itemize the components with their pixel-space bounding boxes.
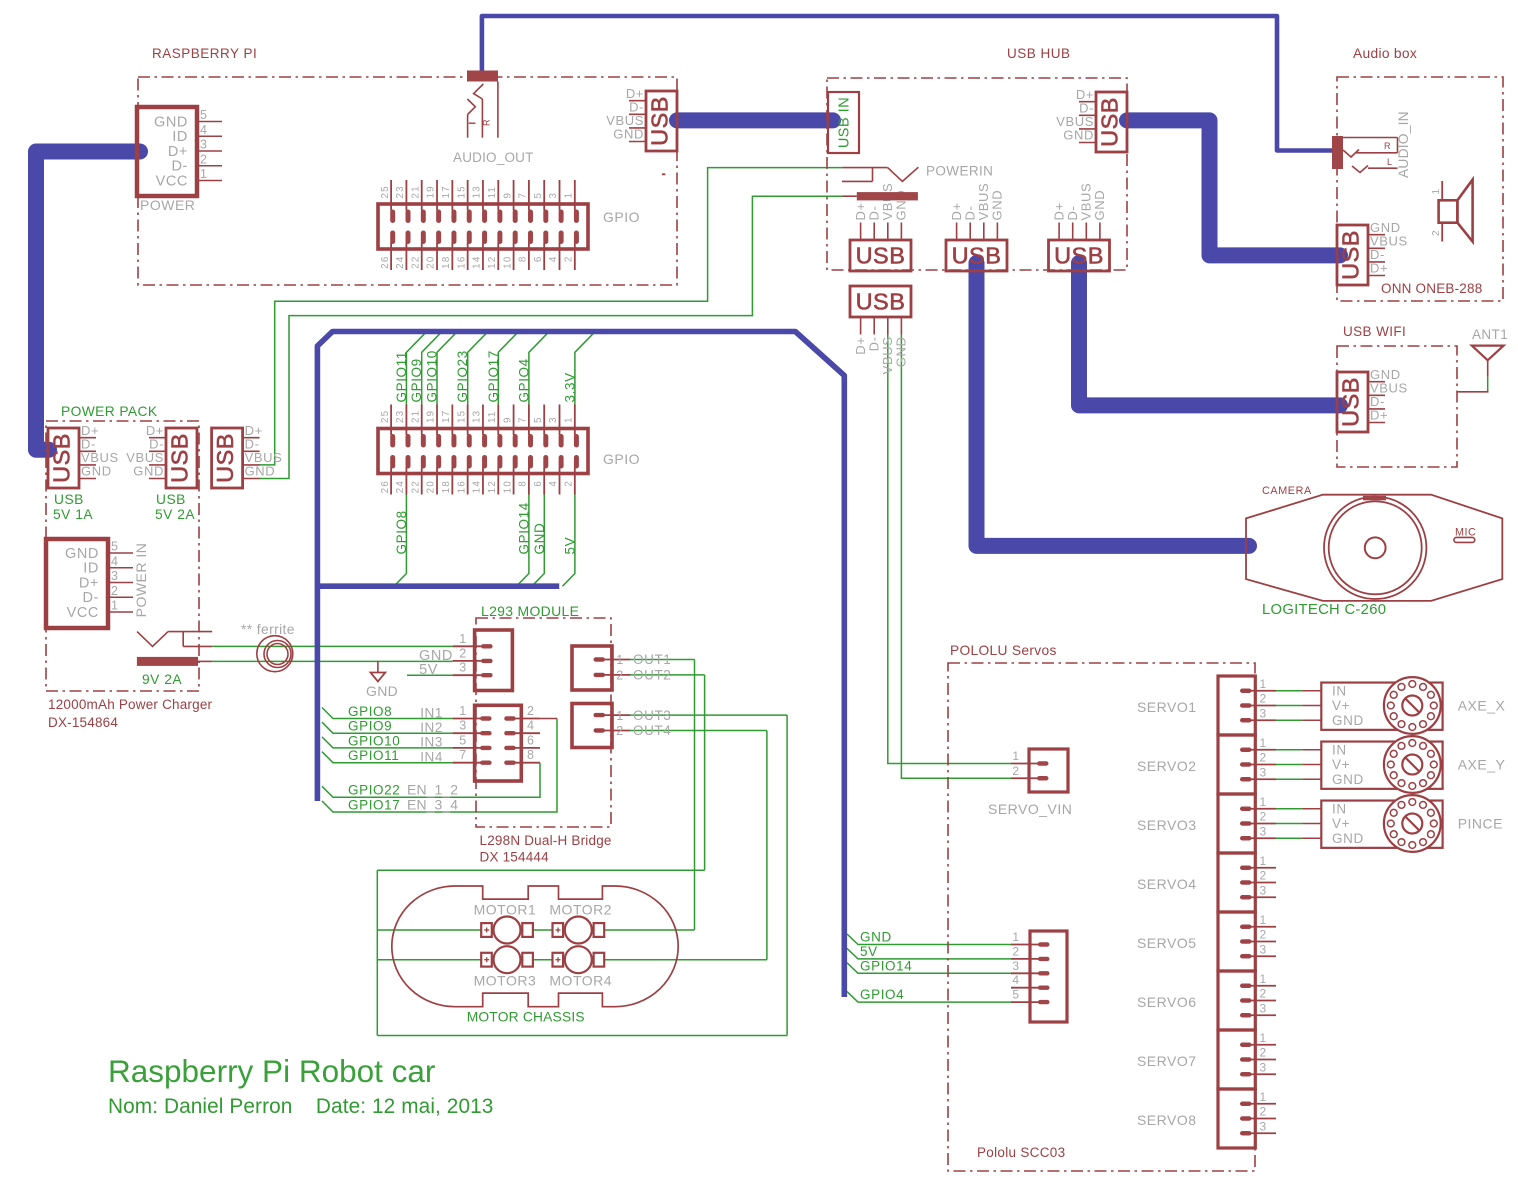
- svg-text:IN: IN: [1332, 683, 1347, 698]
- svg-text:IN1: IN1: [420, 705, 443, 720]
- svg-text:Audio box: Audio box: [1353, 46, 1417, 61]
- svg-text:SERVO6: SERVO6: [1137, 994, 1197, 1010]
- svg-text:GPIO: GPIO: [603, 451, 640, 467]
- svg-text:ANT1: ANT1: [1472, 327, 1508, 342]
- svg-text:V+: V+: [1332, 816, 1350, 831]
- svg-text:7: 7: [518, 416, 529, 423]
- svg-text:GND: GND: [532, 523, 547, 555]
- svg-text:USB IN: USB IN: [837, 97, 853, 148]
- svg-text:4: 4: [1012, 973, 1019, 987]
- svg-text:8: 8: [518, 256, 529, 263]
- svg-text:2: 2: [1012, 944, 1019, 958]
- svg-text:4: 4: [527, 719, 535, 733]
- svg-text:Nom: Daniel Perron Date: 12: Nom: Daniel Perron Date: 12 mai, 2013: [108, 1095, 493, 1118]
- svg-text:20: 20: [426, 256, 437, 269]
- svg-text:12: 12: [487, 256, 498, 269]
- svg-text:4: 4: [111, 554, 119, 568]
- svg-text:17: 17: [441, 185, 452, 198]
- svg-text:GND: GND: [1092, 190, 1107, 221]
- svg-text:15: 15: [456, 410, 467, 423]
- svg-text:15: 15: [456, 185, 467, 198]
- svg-text:SERVO2: SERVO2: [1137, 758, 1197, 774]
- svg-text:5: 5: [1012, 988, 1019, 1002]
- svg-text:4: 4: [200, 123, 208, 137]
- svg-text:9: 9: [502, 416, 513, 423]
- svg-text:SERVO1: SERVO1: [1137, 699, 1197, 715]
- svg-text:3: 3: [200, 138, 208, 152]
- svg-text:Raspberry Pi Robot car: Raspberry Pi Robot car: [108, 1053, 435, 1089]
- svg-text:GPIO9: GPIO9: [409, 358, 424, 402]
- svg-text:IN2: IN2: [420, 720, 443, 735]
- svg-text:MOTOR2: MOTOR2: [549, 902, 612, 918]
- svg-text:11: 11: [487, 186, 498, 199]
- svg-text:OUT2: OUT2: [633, 668, 671, 683]
- svg-text:2: 2: [564, 480, 575, 487]
- svg-text:USB: USB: [156, 492, 186, 507]
- svg-text:IN: IN: [1332, 801, 1347, 816]
- svg-text:SERVO4: SERVO4: [1137, 876, 1197, 892]
- svg-text:R: R: [482, 119, 492, 126]
- svg-text:USB HUB: USB HUB: [1007, 46, 1071, 61]
- svg-text:IN3: IN3: [420, 735, 443, 750]
- svg-text:USB: USB: [952, 243, 1002, 269]
- svg-text:2: 2: [1260, 810, 1267, 824]
- svg-text:1: 1: [200, 167, 208, 181]
- svg-text:3: 3: [1260, 824, 1267, 838]
- svg-text:GND: GND: [860, 930, 892, 945]
- svg-text:V+: V+: [1332, 757, 1350, 772]
- svg-text:GND: GND: [1063, 128, 1094, 143]
- svg-text:D+: D+: [1370, 408, 1388, 423]
- svg-text:9V 2A: 9V 2A: [142, 672, 182, 687]
- svg-text:26: 26: [380, 480, 391, 493]
- svg-text:8: 8: [518, 480, 529, 487]
- svg-text:USB: USB: [1054, 243, 1104, 269]
- svg-text:MOTOR4: MOTOR4: [549, 973, 612, 989]
- svg-text:MOTOR1: MOTOR1: [474, 902, 537, 918]
- svg-text:USB WIFI: USB WIFI: [1343, 324, 1406, 339]
- svg-text:USB: USB: [1338, 230, 1364, 280]
- svg-text:5: 5: [533, 192, 544, 199]
- svg-text:GND: GND: [613, 127, 644, 142]
- svg-text:2: 2: [1260, 1105, 1267, 1119]
- svg-text:GND: GND: [894, 337, 909, 368]
- svg-text:GPIO23: GPIO23: [455, 350, 470, 402]
- svg-text:2: 2: [200, 152, 208, 166]
- svg-text:2: 2: [111, 584, 119, 598]
- svg-text:1: 1: [1260, 1031, 1267, 1045]
- svg-text:1: 1: [111, 599, 119, 613]
- svg-text:14: 14: [472, 480, 483, 493]
- svg-text:1: 1: [1260, 736, 1267, 750]
- svg-text:22: 22: [410, 256, 421, 269]
- svg-text:19: 19: [426, 410, 437, 423]
- svg-text:1: 1: [1260, 854, 1267, 868]
- svg-text:3: 3: [1260, 883, 1267, 897]
- svg-text:IN: IN: [1332, 742, 1347, 757]
- svg-text:CAMERA: CAMERA: [1262, 485, 1312, 497]
- svg-text:D-: D-: [171, 159, 188, 175]
- svg-text:3: 3: [548, 192, 559, 199]
- svg-text:4: 4: [548, 256, 559, 263]
- svg-text:VCC: VCC: [67, 605, 99, 621]
- svg-text:POLOLU Servos: POLOLU Servos: [950, 643, 1057, 658]
- svg-text:USB: USB: [49, 433, 75, 483]
- svg-text:EN_3_4: EN_3_4: [407, 796, 458, 812]
- svg-text:13: 13: [472, 185, 483, 198]
- svg-text:21: 21: [410, 410, 421, 423]
- svg-text:20: 20: [426, 480, 437, 493]
- svg-text:ID: ID: [83, 561, 99, 577]
- svg-text:VCC: VCC: [156, 173, 188, 189]
- svg-text:6: 6: [533, 256, 544, 263]
- svg-text:GND: GND: [366, 683, 398, 699]
- svg-text:GND: GND: [133, 464, 164, 479]
- svg-text:USB: USB: [54, 492, 84, 507]
- svg-text:POWERIN: POWERIN: [926, 164, 993, 179]
- svg-text:2: 2: [1260, 928, 1267, 942]
- svg-text:OUT4: OUT4: [633, 723, 671, 738]
- svg-text:5V: 5V: [562, 537, 577, 555]
- svg-text:2: 2: [1012, 764, 1019, 778]
- svg-text:3: 3: [1260, 706, 1267, 720]
- svg-text:16: 16: [456, 480, 467, 493]
- svg-text:5: 5: [533, 416, 544, 423]
- svg-text:7: 7: [459, 748, 467, 762]
- svg-text:GPIO10: GPIO10: [425, 350, 440, 402]
- svg-text:2: 2: [1260, 692, 1267, 706]
- svg-text:USB: USB: [1338, 377, 1364, 427]
- svg-text:3: 3: [111, 569, 119, 583]
- svg-text:POWER: POWER: [140, 197, 195, 213]
- svg-text:L298N Dual-H Bridge: L298N Dual-H Bridge: [480, 833, 612, 848]
- svg-text:13: 13: [472, 410, 483, 423]
- svg-text:GND: GND: [990, 190, 1005, 221]
- svg-text:16: 16: [456, 256, 467, 269]
- svg-text:GPIO14: GPIO14: [860, 958, 912, 973]
- svg-text:GPIO10: GPIO10: [348, 733, 400, 748]
- svg-text:2: 2: [564, 256, 575, 263]
- svg-text:R: R: [1384, 141, 1391, 151]
- svg-text:LOGITECH C-260: LOGITECH C-260: [1262, 602, 1386, 618]
- svg-text:GPIO8: GPIO8: [348, 704, 392, 719]
- svg-text:25: 25: [380, 410, 391, 423]
- svg-text:12000mAh Power Charger: 12000mAh Power Charger: [48, 697, 213, 712]
- svg-text:8: 8: [527, 748, 535, 762]
- svg-text:SERVO7: SERVO7: [1137, 1053, 1197, 1069]
- svg-text:DX-154864: DX-154864: [48, 715, 118, 730]
- svg-text:1: 1: [616, 709, 624, 723]
- svg-text:25: 25: [380, 185, 391, 198]
- svg-text:GPIO9: GPIO9: [348, 719, 392, 734]
- svg-text:GND: GND: [1332, 831, 1364, 846]
- svg-text:1: 1: [616, 653, 624, 667]
- svg-text:GPIO11: GPIO11: [348, 748, 399, 763]
- svg-text:ONN ONEB-288: ONN ONEB-288: [1381, 281, 1482, 296]
- svg-text:EN_1_2: EN_1_2: [407, 782, 458, 798]
- svg-text:4: 4: [548, 480, 559, 487]
- svg-text:3: 3: [1260, 1119, 1267, 1133]
- svg-text:AXE_X: AXE_X: [1458, 698, 1506, 714]
- svg-text:RASPBERRY PI: RASPBERRY PI: [152, 46, 257, 61]
- svg-text:2: 2: [1260, 869, 1267, 883]
- svg-text:SERVO_VIN: SERVO_VIN: [988, 801, 1072, 817]
- svg-text:1: 1: [564, 192, 575, 199]
- svg-text:GPIO17: GPIO17: [486, 350, 501, 402]
- svg-text:USB: USB: [212, 433, 238, 483]
- svg-text:18: 18: [441, 480, 452, 493]
- svg-text:23: 23: [395, 185, 406, 198]
- svg-text:GPIO4: GPIO4: [860, 987, 904, 1002]
- svg-text:18: 18: [441, 256, 452, 269]
- svg-text:3: 3: [1260, 1001, 1267, 1015]
- svg-text:USB: USB: [167, 433, 193, 483]
- svg-text:OUT3: OUT3: [633, 708, 671, 723]
- svg-text:GPIO11: GPIO11: [394, 351, 409, 402]
- svg-text:USB: USB: [1097, 97, 1123, 147]
- svg-text:OUT1: OUT1: [633, 652, 671, 667]
- svg-text:23: 23: [395, 410, 406, 423]
- svg-text:GND: GND: [1332, 772, 1364, 787]
- svg-text:SERVO8: SERVO8: [1137, 1112, 1197, 1128]
- svg-text:2: 2: [1431, 230, 1442, 236]
- svg-text:MOTOR CHASSIS: MOTOR CHASSIS: [467, 1010, 585, 1025]
- svg-text:6: 6: [533, 480, 544, 487]
- svg-text:2: 2: [459, 646, 467, 660]
- svg-text:POWER IN: POWER IN: [133, 543, 149, 618]
- svg-text:AUDIO_OUT: AUDIO_OUT: [453, 150, 534, 165]
- svg-text:22: 22: [410, 480, 421, 493]
- svg-text:1: 1: [459, 632, 467, 646]
- svg-text:D+: D+: [168, 144, 188, 160]
- svg-text:GND: GND: [245, 464, 276, 479]
- svg-text:GND: GND: [65, 546, 99, 562]
- svg-text:3: 3: [1260, 1060, 1267, 1074]
- svg-text:DX 154444: DX 154444: [480, 850, 550, 865]
- svg-text:6: 6: [527, 733, 535, 747]
- svg-text:GPIO14: GPIO14: [516, 502, 531, 554]
- svg-text:IN4: IN4: [420, 750, 443, 765]
- svg-text:AXE_Y: AXE_Y: [1458, 757, 1506, 773]
- svg-text:24: 24: [395, 480, 406, 493]
- svg-text:7: 7: [518, 192, 529, 199]
- svg-text:1: 1: [1260, 1090, 1267, 1104]
- svg-text:17: 17: [441, 410, 452, 423]
- svg-text:10: 10: [502, 480, 513, 493]
- svg-text:POWER PACK: POWER PACK: [61, 404, 158, 419]
- svg-text:V+: V+: [1332, 698, 1350, 713]
- svg-text:AUDIO_IN: AUDIO_IN: [1396, 111, 1411, 178]
- svg-text:L: L: [1387, 157, 1393, 167]
- svg-text:1: 1: [1260, 677, 1267, 691]
- svg-text:GPIO4: GPIO4: [516, 358, 531, 402]
- svg-text:19: 19: [426, 185, 437, 198]
- svg-text:3: 3: [1260, 942, 1267, 956]
- svg-text:3: 3: [459, 661, 467, 675]
- svg-text:5V 1A: 5V 1A: [53, 507, 93, 522]
- svg-text:USB: USB: [647, 96, 673, 146]
- svg-text:1: 1: [459, 704, 467, 718]
- svg-text:12: 12: [487, 480, 498, 493]
- svg-text:GPIO22: GPIO22: [348, 783, 400, 798]
- svg-text:GND: GND: [1332, 713, 1364, 728]
- svg-text:SERVO3: SERVO3: [1137, 817, 1197, 833]
- svg-text:2: 2: [1260, 1046, 1267, 1060]
- svg-text:9: 9: [502, 192, 513, 199]
- svg-text:2: 2: [1260, 987, 1267, 1001]
- svg-text:10: 10: [502, 256, 513, 269]
- svg-text:1: 1: [1012, 930, 1019, 944]
- svg-text:2: 2: [616, 669, 624, 683]
- svg-text:GPIO: GPIO: [603, 209, 640, 225]
- svg-text:2: 2: [527, 704, 535, 718]
- svg-text:5V: 5V: [419, 662, 438, 678]
- svg-text:5V: 5V: [860, 944, 878, 959]
- svg-text:GND: GND: [154, 114, 188, 130]
- svg-text:1: 1: [1012, 749, 1019, 763]
- svg-text:2: 2: [616, 724, 624, 738]
- svg-text:5: 5: [200, 108, 208, 122]
- svg-text:3: 3: [548, 416, 559, 423]
- svg-text:1: 1: [1431, 188, 1442, 194]
- svg-text:GND: GND: [81, 464, 112, 479]
- svg-text:USB: USB: [856, 289, 906, 315]
- svg-text:5: 5: [459, 733, 467, 747]
- svg-text:MOTOR3: MOTOR3: [474, 973, 537, 989]
- svg-text:3: 3: [1260, 765, 1267, 779]
- svg-text:ID: ID: [172, 129, 188, 145]
- svg-text:26: 26: [380, 256, 391, 269]
- svg-text:1: 1: [1260, 795, 1267, 809]
- svg-text:PINCE: PINCE: [1458, 816, 1503, 832]
- svg-text:5: 5: [111, 540, 119, 554]
- svg-text:D+: D+: [1370, 261, 1388, 276]
- svg-text:** ferrite: ** ferrite: [241, 622, 295, 637]
- svg-text:1: 1: [1260, 972, 1267, 986]
- svg-text:SERVO5: SERVO5: [1137, 935, 1197, 951]
- svg-text:D+: D+: [79, 575, 99, 591]
- svg-text:14: 14: [472, 256, 483, 269]
- svg-text:L293 MODULE: L293 MODULE: [481, 603, 579, 619]
- svg-text:1: 1: [1260, 913, 1267, 927]
- svg-text:3.3V: 3.3V: [562, 372, 577, 402]
- svg-text:24: 24: [395, 256, 406, 269]
- svg-text:2: 2: [1260, 751, 1267, 765]
- svg-text:3: 3: [1012, 959, 1019, 973]
- svg-text:GPIO17: GPIO17: [348, 797, 400, 812]
- svg-text:USB: USB: [856, 243, 906, 269]
- svg-text:11: 11: [487, 410, 498, 423]
- svg-text:3: 3: [459, 719, 467, 733]
- svg-text:Pololu SCC03: Pololu SCC03: [977, 1145, 1065, 1160]
- svg-text:21: 21: [410, 185, 421, 198]
- svg-text:1: 1: [564, 416, 575, 423]
- svg-text:GPIO8: GPIO8: [394, 510, 409, 554]
- svg-text:5V 2A: 5V 2A: [155, 507, 195, 522]
- svg-text:D-: D-: [82, 590, 99, 606]
